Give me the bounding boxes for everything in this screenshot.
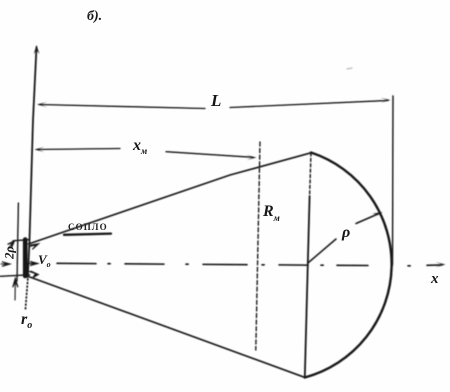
left extension line [17, 203, 18, 281]
spherical front arc [305, 153, 392, 378]
R_m dashed vertical line [256, 142, 260, 350]
label x_m [133, 137, 147, 156]
2rho dimension upper arrowhead [8, 241, 15, 249]
label rho [342, 224, 350, 242]
underline of nozzle label [64, 234, 111, 235]
velocity arrow V0 lower [30, 271, 39, 277]
vertical axis (r-axis) with arrow [25, 45, 39, 311]
label 2rho (rotated) [3, 240, 18, 266]
upper jet boundary [29, 153, 312, 244]
velocity arrow V0 upper [30, 244, 39, 250]
label V0 [38, 252, 51, 269]
label R_m [263, 203, 280, 223]
x_m dimension line [35, 147, 257, 160]
nozzle top cap [13, 240, 30, 241]
label soplo (nozzle) [68, 222, 108, 232]
nozzle exit bar (source) [23, 240, 28, 277]
2rho dimension lower arrow [13, 278, 18, 300]
radius line rho with arrow [309, 212, 383, 263]
label x (axis) [431, 271, 439, 288]
axis centerline (dash-dot) with arrow [57, 262, 446, 267]
nozzle bottom cap [0, 275, 30, 277]
chord line of spherical front [310, 153, 311, 196]
2rho dimension leader arrow (horizontal) [1, 262, 10, 267]
right extension line [392, 96, 395, 265]
label L [211, 91, 221, 111]
top-right faint smudge [347, 68, 352, 69]
lower jet boundary [29, 277, 305, 378]
header label б). [87, 9, 102, 25]
velocity arrow V0 middle [30, 262, 38, 266]
label r0 [21, 311, 32, 331]
L dimension line [37, 98, 391, 109]
